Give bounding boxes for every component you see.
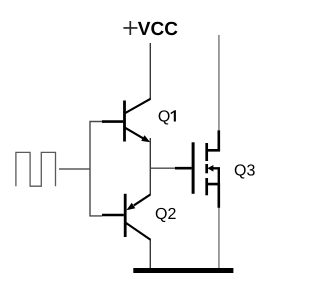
svg-text:Q: Q bbox=[158, 108, 170, 125]
wire Q1 emitter to Q2 emitter (output node) bbox=[149, 138, 151, 195]
wire node to Q3 gate bbox=[150, 167, 175, 169]
ground bar bbox=[133, 268, 233, 273]
transistor Q2 (PNP) bbox=[102, 194, 151, 240]
wire Q2 collector to ground bbox=[149, 240, 151, 269]
wire VCC to Q1 collector bbox=[149, 43, 151, 99]
transistor Q3 (NMOS) bbox=[175, 130, 219, 207]
label +VCC : plus sign bbox=[123, 21, 137, 35]
wire base bus (Q1 base to Q2 base) bbox=[90, 122, 102, 216]
svg-text:Q3: Q3 bbox=[234, 163, 255, 180]
wire Q3 drain up bbox=[218, 35, 220, 131]
svg-text:Q2: Q2 bbox=[155, 206, 176, 223]
wire Q3 source down to ground bbox=[218, 208, 220, 269]
transistor Q1 (NPN) bbox=[102, 99, 151, 143]
wire input to base bus bbox=[59, 168, 90, 170]
input square wave bbox=[16, 152, 56, 186]
svg-text:VCC: VCC bbox=[138, 19, 178, 40]
